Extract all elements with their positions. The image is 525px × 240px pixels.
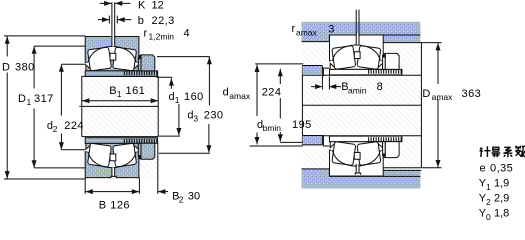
svg-text:B: B [99,200,106,212]
svg-text:bmin: bmin [263,123,282,133]
svg-text:amin: amin [348,85,367,95]
svg-text:D: D [422,88,430,100]
svg-text:amax: amax [296,27,318,37]
svg-text:2: 2 [179,195,184,205]
svg-text:1,2min: 1,2min [149,32,175,42]
svg-text:0: 0 [486,212,491,221]
svg-text:0,35: 0,35 [490,162,513,174]
svg-text:e: e [480,162,486,174]
svg-text:d: d [223,87,229,99]
svg-text:K: K [138,0,146,11]
svg-text:363: 363 [462,88,482,100]
svg-text:224: 224 [262,87,282,99]
svg-text:1,8: 1,8 [494,208,509,220]
svg-text:12: 12 [152,0,164,11]
svg-text:2: 2 [486,197,491,207]
svg-text:3: 3 [193,114,198,124]
svg-text:r: r [144,28,148,40]
svg-text:d: d [169,91,175,103]
svg-text:3: 3 [328,23,334,35]
svg-text:195: 195 [292,119,312,131]
svg-text:4: 4 [184,28,190,40]
svg-text:1: 1 [486,182,491,192]
svg-text:amax: amax [229,91,251,101]
svg-text:224: 224 [64,120,84,132]
svg-text:8: 8 [377,81,383,93]
svg-text:380: 380 [15,61,35,73]
svg-text:D: D [18,93,26,105]
svg-text:1: 1 [175,95,180,105]
svg-text:160: 160 [184,91,204,103]
svg-text:317: 317 [34,93,54,105]
svg-text:1,9: 1,9 [494,178,509,190]
svg-text:r: r [292,23,296,35]
svg-text:1: 1 [27,97,32,107]
svg-text:b: b [138,15,144,27]
svg-text:126: 126 [110,200,130,212]
svg-text:22,3: 22,3 [152,15,175,27]
svg-text:1: 1 [117,89,122,99]
svg-text:230: 230 [204,110,224,122]
svg-text:161: 161 [126,85,146,97]
svg-text:30: 30 [188,190,200,202]
svg-text:2,9: 2,9 [494,193,509,205]
svg-text:2: 2 [53,124,58,134]
svg-text:B: B [109,85,116,97]
svg-text:amax: amax [432,92,454,102]
svg-text:D: D [2,61,10,73]
